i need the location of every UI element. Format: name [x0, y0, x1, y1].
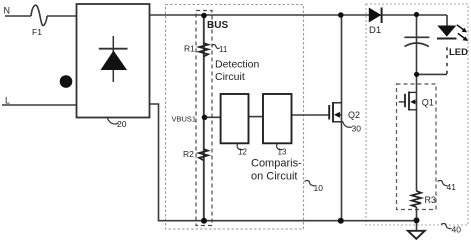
- svg-text:Q2: Q2: [348, 110, 360, 120]
- svg-text:R1: R1: [184, 44, 195, 54]
- svg-text:41: 41: [447, 182, 457, 192]
- svg-text:F1: F1: [32, 27, 42, 37]
- svg-text:on Circuit: on Circuit: [251, 170, 297, 182]
- svg-text:Q1: Q1: [422, 98, 434, 108]
- svg-text:40: 40: [452, 225, 462, 235]
- svg-text:Comparis-: Comparis-: [251, 158, 302, 170]
- svg-text:L: L: [5, 96, 10, 106]
- svg-text:20: 20: [117, 119, 127, 129]
- svg-text:Circuit: Circuit: [215, 71, 245, 83]
- svg-text:D1: D1: [369, 25, 381, 36]
- svg-text:11: 11: [219, 45, 228, 54]
- svg-text:VBUS1: VBUS1: [172, 115, 197, 124]
- svg-text:BUS: BUS: [207, 20, 228, 31]
- svg-text:LED: LED: [449, 47, 468, 58]
- svg-text:N: N: [4, 6, 11, 16]
- svg-text:10: 10: [314, 183, 324, 193]
- svg-text:R2: R2: [183, 149, 194, 159]
- svg-text:12: 12: [238, 148, 247, 157]
- svg-text:13: 13: [278, 148, 287, 157]
- svg-text:30: 30: [352, 124, 362, 134]
- svg-text:Detection: Detection: [215, 59, 260, 71]
- svg-text:R3: R3: [425, 195, 437, 205]
